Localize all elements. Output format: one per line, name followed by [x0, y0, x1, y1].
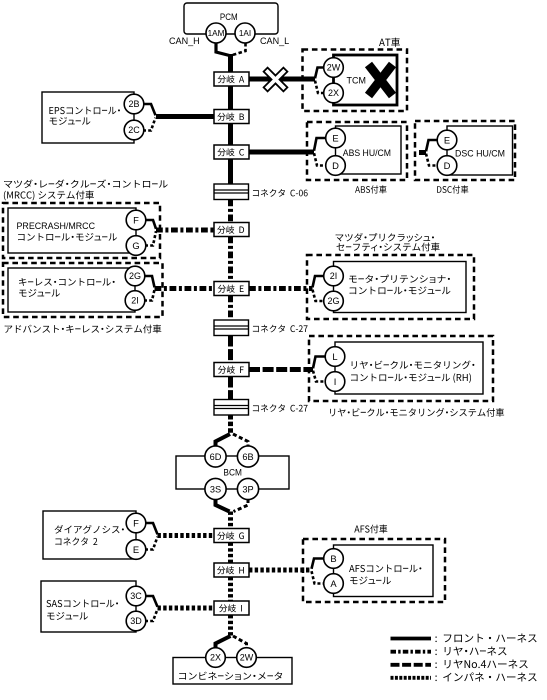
svg-text:CAN_H: CAN_H — [169, 36, 200, 46]
svg-text:3D: 3D — [130, 616, 142, 626]
svg-text:3C: 3C — [130, 591, 142, 601]
svg-text:PCM: PCM — [220, 12, 238, 23]
svg-text:1AM: 1AM — [208, 29, 225, 38]
svg-text:2X: 2X — [210, 653, 221, 663]
svg-text:D: D — [332, 160, 339, 171]
svg-text:2W: 2W — [240, 653, 254, 663]
svg-text:BCM: BCM — [223, 468, 242, 479]
svg-text:L: L — [332, 351, 337, 362]
svg-text:TCM: TCM — [347, 76, 366, 87]
svg-text:6D: 6D — [210, 452, 222, 462]
svg-text:ABS HU/CM: ABS HU/CM — [343, 148, 391, 159]
svg-text:G: G — [132, 240, 139, 251]
svg-text:2I: 2I — [131, 296, 139, 306]
svg-text:6B: 6B — [242, 452, 253, 462]
svg-text:I: I — [334, 376, 337, 387]
svg-text:B: B — [330, 553, 336, 564]
svg-text:A: A — [330, 578, 337, 589]
svg-text:E: E — [332, 132, 338, 143]
svg-text:E: E — [133, 544, 139, 555]
svg-text:E: E — [444, 134, 450, 145]
svg-text:CAN_L: CAN_L — [260, 36, 289, 46]
svg-text:3S: 3S — [210, 484, 221, 494]
svg-text:F: F — [133, 214, 139, 225]
svg-text:D: D — [444, 160, 451, 171]
svg-text:1AI: 1AI — [239, 29, 251, 38]
svg-text:3P: 3P — [242, 484, 253, 494]
svg-text:2B: 2B — [128, 99, 139, 109]
svg-text:2G: 2G — [129, 271, 141, 281]
svg-text:2W: 2W — [327, 63, 341, 73]
svg-text:DSC HU/CM: DSC HU/CM — [455, 149, 505, 160]
svg-text:2C: 2C — [128, 125, 140, 135]
svg-text:2G: 2G — [327, 296, 339, 306]
svg-text:PRECRASH/MRCC: PRECRASH/MRCC — [17, 221, 96, 232]
svg-text:F: F — [133, 517, 139, 528]
svg-text:2X: 2X — [328, 88, 339, 98]
svg-text:2I: 2I — [330, 271, 338, 281]
